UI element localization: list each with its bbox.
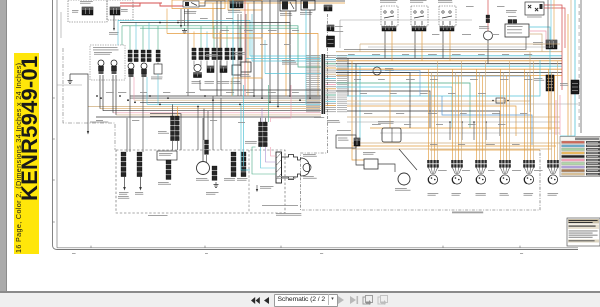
wire stub 486 [485,122,487,140]
wire pin row 8 [306,70,347,71]
instrument console box [116,150,285,213]
label key switch [184,11,196,14]
wire color legend [560,137,600,177]
inline connector J2 [141,50,145,62]
label relay K5 [410,0,427,3]
wire rbus-5 [336,63,562,65]
wire pin row 21 [306,97,347,98]
wire g2 leg 2a [206,31,208,48]
wire spares dist 1 [352,142,560,144]
wire number label [486,144,495,145]
wire spare 4d TN [509,61,511,160]
blower motor M2 [398,173,410,185]
harness boundary [63,48,115,150]
wire drop stack [177,107,179,117]
label ECM text [507,26,523,33]
wire relay feeder [340,19,472,21]
wire spare 2d TN [461,61,463,160]
label hour meter [479,26,489,29]
wire PS1 down [157,74,159,104]
console divider [248,150,250,213]
wire pin row 10 [306,74,347,75]
wire pin row 12 [306,78,347,79]
wire into C200A b [252,60,321,62]
wire mesh b2 [347,111,500,136]
wire mesh p2 [555,100,557,135]
inline connector J1b [134,50,138,62]
label fuse block [228,10,242,13]
inline connector J2b [147,50,151,62]
wire rbus-8 [336,72,562,74]
label P1 [80,1,93,4]
resistor R5 [364,159,378,169]
wire leg 4 [148,22,150,50]
wire S1 pin1 [99,75,101,109]
label CB1 [121,9,128,12]
junction [309,97,311,99]
wire pin row 2 [306,57,347,58]
spare connector SP3 [475,160,487,184]
wire number label [478,93,486,94]
wire pin row 9 [306,72,347,73]
wire spare 4a OR [499,69,501,160]
wire ECM cyan out [529,27,550,75]
label horn [196,178,209,181]
wire mesh v4 [359,66,361,140]
label R5 [363,152,375,155]
wire feeder CY [118,21,321,57]
wire feeder drop b [121,26,123,45]
wire drop [285,11,287,96]
wire pin row 19 [306,92,347,93]
label starter note [276,176,296,179]
wire corner 204 [203,109,205,140]
wire drop [261,1,263,98]
wire riser 265 [264,40,266,74]
wire pin row 15 [306,84,347,85]
wire drop [269,0,271,102]
key switch S10 [183,1,199,7]
previous page button [264,297,269,304]
wire spare 6c OR [554,75,556,160]
wire mesh v2 ext [352,128,364,160]
wire spare 2c OR [458,75,460,160]
wire spare 4b TN [502,73,504,161]
wire drop [247,3,249,96]
wire pin row 4 [306,61,347,62]
wire bus-8 [103,110,321,112]
wire number label [96,120,103,121]
wire pin row 7 [306,68,347,69]
wire mesh v3 [355,64,357,128]
label console 10 [327,120,340,123]
wire corner 181 [150,114,181,150]
key switch box [172,0,225,9]
wire mesh g2 [347,121,560,123]
wire number label [402,54,409,55]
wire number label [492,113,500,114]
junction [119,95,121,97]
wire stub 462 [461,122,463,140]
label g2-1 [192,81,202,84]
wire number label [200,18,208,19]
wire red hourmeter feed [487,0,489,31]
label g2-4 [231,81,242,84]
wire mesh v2 [351,61,353,128]
wire spare 1d TN [437,61,439,160]
wire R-89 [529,34,542,52]
label term b [135,192,143,195]
wire rbus-7 [336,68,562,70]
connector console D [212,166,217,180]
wire bus-4 [140,101,321,103]
wire number label [502,54,509,55]
arrowhead keysw [180,25,182,28]
wire mesh t2 [347,116,560,118]
label cluster mid [282,60,298,65]
wire S1 pin2 [102,75,104,111]
last page button (disabled) [350,296,359,304]
wire g2 mid 1a [193,61,195,66]
wire feeder GN [122,26,321,67]
arrowhead bus end [87,131,89,135]
wire g2 leg 2b [213,26,215,48]
wire rbus-3 [336,57,562,59]
label C200 S [533,42,543,45]
wire spare 5b TN [526,73,528,161]
wire spare 3b TN [478,73,480,161]
wire number label [390,93,397,94]
wire number label [488,170,495,171]
inline connector J5b [212,48,216,60]
wire C201 down [206,155,208,162]
wire number label [498,124,506,125]
inline connector J4b [199,48,203,60]
page number box [274,294,338,307]
wire from C200 R [549,91,551,130]
connector C200 P [571,80,579,94]
wire number label [468,124,476,125]
wire relay drop [449,31,451,61]
wire spare 6b TN [550,73,552,161]
connector under G1 [194,73,202,78]
wire border stub [60,12,62,38]
wire teal drop 268 [268,85,270,122]
wire S2 pin1 [112,75,114,113]
connector console E [231,152,236,177]
label PS1 [151,77,163,80]
spare connector SP5 [523,160,535,184]
wire E-1 CY [574,0,576,136]
wire number label [512,144,520,145]
wire topright v1 [547,0,549,40]
wire pin row 17 [306,88,347,89]
junction [134,101,136,103]
wire console drop [220,98,222,150]
wire spare 2b TN [454,73,456,161]
connector C200 E [327,36,335,47]
connector C200 T [171,116,180,141]
wire into C200A c [265,73,321,75]
wire number label [244,30,253,31]
wire number label [170,120,178,121]
wire number label [396,113,404,114]
wire number label [118,92,126,93]
wire pin row 27 [306,109,347,110]
wire 109-OR [199,2,345,4]
junction [277,106,279,108]
wire mesh o1 [347,106,516,136]
yellow part banner [14,53,39,254]
wire riser 252 [251,14,253,61]
fuse box outline [228,0,262,10]
wire number label [512,170,521,171]
wire pin row 26 [306,107,347,108]
wire drop [309,10,311,98]
wire drop [277,0,279,107]
label bus end [90,122,108,123]
wire g2 leg 1a [193,31,195,48]
wire drop [216,1,218,96]
wire number label [292,30,299,31]
wire number label [458,144,465,145]
wire pin row 1 [306,55,347,56]
wire C200B purple [261,108,263,122]
wire drop 241 [240,14,242,96]
junction [167,97,169,99]
label SPARES 10 - CONSOLE BULK [452,212,483,214]
wire number label [436,124,443,125]
wire mesh p1 [559,95,561,135]
wire number label [348,54,355,55]
label K10 inner [338,138,349,141]
wire mesh c3 [560,135,575,137]
wire number label [364,113,372,114]
wire rbus-4 [336,60,562,62]
wire starter pink [271,147,277,156]
wire pin row 18 [306,90,347,91]
wire number label [260,44,268,45]
wire number label [448,93,456,94]
label C200 T [158,131,169,134]
label S1 [94,52,112,55]
connector g2-2 [207,66,214,73]
wire cyan starter a [241,104,250,170]
connector console C [166,160,171,180]
junction [253,95,255,97]
breaker box [107,0,133,20]
label C200 E [332,31,343,32]
label glow relay [506,10,517,13]
wire mesh b4 [344,37,526,50]
wire number label [106,92,114,93]
wire number label [268,30,277,31]
wire mesh b1 [336,91,430,128]
wire sender 2 down [142,77,144,152]
label C200 B [245,141,257,144]
wire pin row 24 [306,103,347,104]
wire console drop [212,96,214,150]
wire gnd stub [69,74,71,78]
wire C200B drop [260,118,262,122]
previous view icon (disabled) [362,295,373,305]
wire spare 3a OR [475,69,477,160]
circuit breaker CB1 [110,7,120,15]
wire spare 5d TN [533,61,535,160]
wire mesh t3 stub [359,44,361,52]
wire number label [500,79,509,80]
wire C200B drop [265,118,267,122]
switch SW4 [232,65,241,75]
label SP6 [548,193,559,196]
wire stub 450 [449,122,451,140]
wire bus-1 [130,95,321,97]
wire bus-9 [113,112,321,114]
wire keysw leg 2 [184,9,186,26]
wire number label [140,92,147,93]
label HARNESS AC WIRE GROUP [276,213,301,216]
wire leg 5 [157,26,159,50]
junction F3 b [507,100,509,102]
ground G5 [182,28,187,34]
junction [261,97,263,99]
wire number label [378,79,385,80]
relay K9 [241,62,251,72]
wire bus-10 [116,114,321,116]
wire ECM pink out [529,31,546,48]
wire S2 pin2 [115,75,117,115]
wire mesh c2 [347,60,540,96]
junction 301b [177,22,179,24]
wire bus-5 [147,103,321,105]
junction [197,106,199,108]
wire border stub 2 [57,84,82,86]
wire relay drop [442,31,444,58]
relay K5 [411,6,428,26]
wire mesh blue 1 [430,76,530,112]
wire number label [462,34,471,35]
label starter motor [303,154,317,157]
wire E-3 OR [567,14,569,136]
wire g2 leg 3b [226,26,228,48]
wire number label [428,54,437,55]
wire mesh t1 [347,52,530,101]
pressure switch PS1 [154,64,162,74]
wire number label [466,6,474,7]
junction F3 a [492,100,494,102]
relay K4 [381,6,398,26]
wire 117-OR [167,34,318,97]
inline connector J6 [218,48,222,60]
inline connector J5 [205,48,209,60]
label fuel gauge [385,68,394,71]
connector C201 [205,140,209,154]
wire topright v3 [553,0,555,40]
wire pin row 22 [306,99,347,100]
label C200 R [534,78,544,81]
wire number label [226,18,233,19]
connector console A [121,152,126,177]
wire drop [253,1,255,96]
wire sender 1 sig [133,77,135,100]
wire number label [268,92,276,93]
wire spare 4c OR [506,75,508,160]
relay K6 [439,6,456,26]
wire drop [305,10,307,104]
wire g2 mid 3a [219,61,221,66]
wire g2 leg 1b [200,26,202,48]
connector P1 [82,7,93,15]
wire mesh o3 [336,69,390,128]
label starter motor 2 [303,176,317,179]
wire drop [289,11,291,96]
label wire group [148,215,168,216]
wire number label [226,92,234,93]
wire to battery [113,15,115,29]
wire drop 238 [237,14,239,96]
wire spares dist 2 [352,145,556,147]
wire 301-BK loop [120,23,290,97]
ground console D [214,182,219,188]
wire mesh blue 2 [442,96,532,145]
wire g2 mid 4b [239,61,241,66]
relay K3 [280,0,296,11]
wire spares dist 3 [352,148,552,150]
wire into C200T [150,116,171,118]
bulkhead connector C200 A [322,54,326,114]
wire mesh g1 [336,83,470,128]
connector C200 T inner [157,151,177,160]
junction [289,95,291,97]
wire number label [478,54,485,55]
sender G1 [194,64,201,71]
wire number label [460,113,467,114]
wire topright v2 [550,0,552,40]
spare connector SP2 [451,160,463,184]
label harness note [262,205,298,206]
wire number label [372,54,380,55]
wire pin row 23 [306,101,347,102]
wire horn feed [202,118,204,161]
wire relay drop [384,31,386,58]
connector ECM top [508,20,517,24]
wire number label [372,124,381,125]
wire cyan starter b [243,85,245,166]
wire term b [140,176,142,188]
wire mesh o2 [370,127,560,129]
label battery feed [109,32,119,35]
console 10 box [301,14,541,210]
wire number label [284,44,291,45]
wire pin row 14 [306,82,347,83]
wire number label [432,34,439,35]
label term a [119,192,129,195]
wire number label [246,92,254,93]
label flasher [300,12,312,15]
wire diagonal [399,149,417,170]
wire bus-11 [96,116,321,118]
ground starter [256,189,258,192]
wire 308-BK [199,1,345,6]
wire relay feeder drop [339,20,341,48]
wire number label [292,92,299,93]
label C200 T inner [159,153,172,156]
label keysw feed [177,20,185,21]
inline connector J7 [231,48,235,60]
connector g2-3 [220,66,227,73]
relay K10 [336,135,356,148]
wire number label [163,92,170,93]
